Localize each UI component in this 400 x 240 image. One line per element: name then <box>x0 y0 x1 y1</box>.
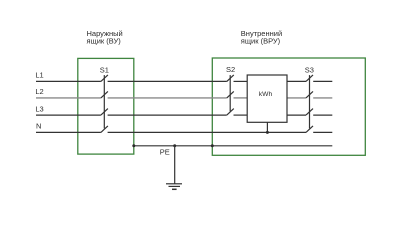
wire PE <box>134 145 332 147</box>
svg-text:S1: S1 <box>100 66 109 75</box>
wire L1 left segment <box>36 80 101 82</box>
svg-text:L3: L3 <box>35 104 43 113</box>
wire L1 middle segment <box>108 80 227 82</box>
junction PE at box1 <box>132 144 135 147</box>
ground <box>166 184 182 190</box>
wire L2 middle segment <box>108 97 227 99</box>
svg-text:N: N <box>36 121 41 130</box>
wire L2 output <box>313 97 332 99</box>
enclosure box1 (Наружный ящик ВУ) <box>78 58 134 154</box>
svg-text:L1: L1 <box>35 71 43 80</box>
wire N output <box>313 131 332 133</box>
label Наружный ящик (ВУ) <box>87 29 123 46</box>
switch S2 <box>227 75 234 115</box>
svg-text:PE: PE <box>160 147 170 156</box>
wire meter neutral stub <box>266 122 268 132</box>
wire N left segment <box>36 131 101 133</box>
enclosure box2 (Внутренний ящик ВРУ) <box>212 58 365 155</box>
svg-text:ящик (ВРУ): ящик (ВРУ) <box>241 37 281 46</box>
wire ground stem <box>174 146 176 184</box>
wire L3 to meter <box>234 114 248 116</box>
wire L3 left segment <box>36 114 101 116</box>
wire L2 to meter <box>234 97 248 99</box>
wire N middle segment <box>108 131 306 133</box>
svg-text:S3: S3 <box>305 66 314 75</box>
svg-text:S2: S2 <box>226 65 235 74</box>
label Внутренний ящик (ВРУ) <box>241 29 282 46</box>
kWh meter <box>247 75 287 122</box>
junction PE at ground stem <box>173 144 176 147</box>
svg-text:kWh: kWh <box>259 91 273 98</box>
junction meter-N tap <box>266 131 269 134</box>
wire L3 output <box>313 114 332 116</box>
wire L2 left segment <box>36 97 101 99</box>
wire L3 middle segment <box>108 114 227 116</box>
wire L1 meter to S3 <box>287 80 306 82</box>
wire L2 meter to S3 <box>287 97 306 99</box>
svg-text:L2: L2 <box>35 87 43 96</box>
switch S3 <box>306 75 313 132</box>
wire L1 output <box>313 80 332 82</box>
svg-text:ящик (ВУ): ящик (ВУ) <box>87 37 122 46</box>
junction PE at box2 <box>211 144 214 147</box>
wire L3 meter to S3 <box>287 114 306 116</box>
wire L1 to meter <box>234 80 248 82</box>
switch S1 <box>101 75 108 132</box>
